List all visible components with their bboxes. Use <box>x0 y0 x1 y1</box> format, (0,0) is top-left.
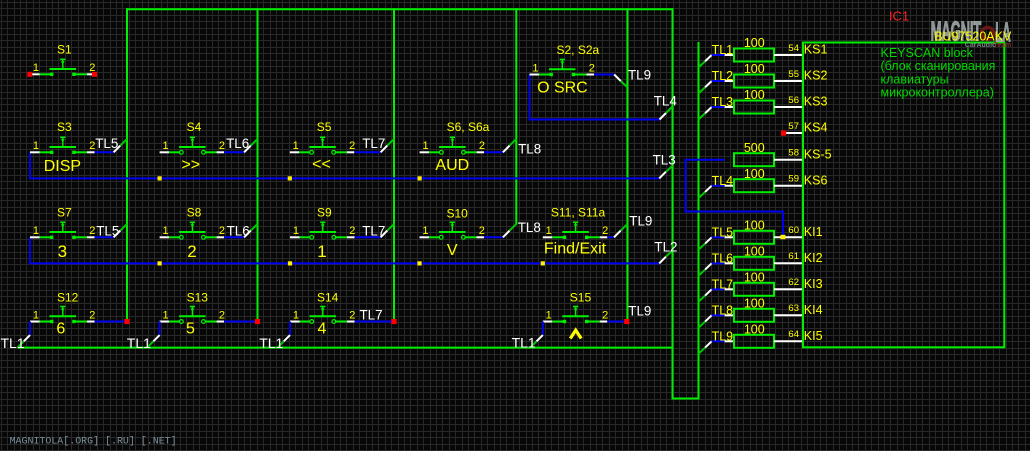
svg-text:TL5: TL5 <box>95 136 118 151</box>
svg-text:1: 1 <box>33 62 39 74</box>
wire: S9 pin2 to bus <box>355 236 381 238</box>
switch S2 <box>530 60 595 77</box>
svg-text:>>: >> <box>181 156 200 173</box>
svg-text:2: 2 <box>89 309 95 321</box>
wire: vertical bus resistor column <box>698 42 700 400</box>
svg-text:500: 500 <box>744 141 765 155</box>
svg-text:KS4: KS4 <box>804 121 828 135</box>
switch S8 <box>160 222 225 239</box>
wire: S13 pin1 to TL1 bus <box>159 322 161 336</box>
svg-text:59: 59 <box>788 174 799 185</box>
svg-text:TL2: TL2 <box>654 240 677 255</box>
svg-text:S13: S13 <box>187 290 209 304</box>
svg-text:100: 100 <box>744 219 765 233</box>
svg-text:S6, S6a: S6, S6a <box>447 120 490 134</box>
wire: KI1 resistor to IC <box>774 236 803 238</box>
svg-text:100: 100 <box>744 271 765 285</box>
wire: S15 pin2 to bus end <box>607 321 626 323</box>
end marker at S13 pin2 bus junction <box>255 319 260 324</box>
svg-text:2: 2 <box>349 225 355 237</box>
wire: S12 pin1 to TL1 bus <box>29 322 31 336</box>
svg-text:TL1: TL1 <box>1 335 25 351</box>
resistor 500 for KS-5 <box>734 153 774 166</box>
wire: bottom U link horizontal <box>672 398 699 400</box>
svg-text:60: 60 <box>788 225 799 236</box>
svg-text:TL8: TL8 <box>518 220 541 235</box>
wire: vertical bus TL5 column <box>126 8 128 321</box>
svg-text:TL8: TL8 <box>712 304 734 318</box>
label up-arrow chevron for S15 <box>570 330 581 338</box>
svg-text:100: 100 <box>744 167 765 181</box>
svg-text:2: 2 <box>349 309 355 321</box>
svg-text:2: 2 <box>219 225 225 237</box>
wire: S6 pin2 to bus <box>484 151 503 153</box>
svg-text:TL7: TL7 <box>362 136 385 151</box>
svg-text:TL9: TL9 <box>629 213 652 228</box>
resistor 100 for KI2 <box>734 257 774 270</box>
svg-text:TL5: TL5 <box>712 226 734 240</box>
svg-text:S9: S9 <box>317 206 332 220</box>
svg-text:1: 1 <box>532 62 538 74</box>
wire: KS-5 net to KI1 <box>686 160 783 238</box>
svg-text:IC1: IC1 <box>889 9 909 24</box>
svg-text:KS1: KS1 <box>804 43 828 57</box>
switch S9 <box>290 222 355 239</box>
wire: KI1 row <box>712 236 725 238</box>
wire: row1 pin1 drop S3 <box>30 152 659 178</box>
node bus entry for KI4 <box>699 322 706 328</box>
wire: KI2 row <box>712 262 725 264</box>
switch S7 <box>30 222 95 239</box>
wire: TL1 bottom row bus <box>18 347 674 349</box>
wire: top horizontal bus <box>126 8 674 10</box>
svg-text:BU97520AKV: BU97520AKV <box>934 29 1012 43</box>
svg-text:1: 1 <box>293 309 299 321</box>
svg-text:1: 1 <box>293 140 299 152</box>
resistor 100 for KI4 <box>734 309 774 322</box>
wire: KI3 resistor to IC <box>774 288 803 290</box>
wire: S12 pin2 to bus end <box>95 321 126 323</box>
svg-text:TL2: TL2 <box>712 69 734 83</box>
svg-text:TL6: TL6 <box>226 136 249 151</box>
unconnected end marker KS4 <box>781 131 786 136</box>
svg-text:57: 57 <box>788 121 799 132</box>
unconnected end marker S1 pin1 <box>27 72 32 77</box>
svg-text:TL4: TL4 <box>654 94 678 109</box>
svg-text:100: 100 <box>744 62 765 76</box>
svg-text:<<: << <box>312 156 331 173</box>
svg-text:TL3: TL3 <box>712 95 734 109</box>
end marker at S15 pin2 bus junction <box>624 319 629 324</box>
svg-text:V: V <box>447 242 458 259</box>
svg-text:S7: S7 <box>57 206 72 220</box>
svg-text:KI5: KI5 <box>804 329 823 343</box>
svg-text:56: 56 <box>788 95 799 106</box>
junction at KS-5/KI1 <box>780 235 785 239</box>
svg-text:100: 100 <box>744 36 765 50</box>
svg-text:AUD: AUD <box>435 157 469 174</box>
svg-text:TL7: TL7 <box>362 223 385 238</box>
svg-text:TL1: TL1 <box>512 334 536 350</box>
wire: vertical bus TL9 column <box>626 8 628 321</box>
svg-text:S3: S3 <box>57 120 72 134</box>
node bus entry for KS1 <box>699 61 706 67</box>
junction at S9 <box>288 261 292 265</box>
svg-text:KI3: KI3 <box>804 277 823 291</box>
resistor 100 for KS3 <box>734 101 774 114</box>
svg-text:S2, S2a: S2, S2a <box>557 43 600 57</box>
svg-text:DISP: DISP <box>44 158 81 175</box>
svg-text:TL5: TL5 <box>96 223 119 238</box>
svg-text:2: 2 <box>602 225 608 237</box>
svg-text:S15: S15 <box>570 290 592 304</box>
svg-text:TL3: TL3 <box>653 152 676 167</box>
svg-text:TL1: TL1 <box>259 335 283 351</box>
svg-text:2: 2 <box>219 140 225 152</box>
wire: KI3 row <box>712 288 725 290</box>
wire: KI4 row <box>712 314 725 316</box>
resistor 100 for KI3 <box>734 283 774 296</box>
wire: S8 pin2 to bus <box>224 236 244 238</box>
wire: vertical bus TL8 column <box>515 8 517 224</box>
svg-text:TL9: TL9 <box>628 67 651 82</box>
junction at S5 <box>288 176 292 180</box>
svg-text:1: 1 <box>162 309 168 321</box>
svg-text:3: 3 <box>58 242 67 261</box>
wire: S7 pin2 to bus <box>95 236 114 238</box>
svg-text:KS-5: KS-5 <box>804 147 832 161</box>
svg-text:100: 100 <box>744 245 765 259</box>
wire: S14 pin1 to TL1 bus <box>289 322 291 336</box>
wire: KS3 resistor to IC <box>774 106 803 108</box>
switch S11 <box>543 222 608 239</box>
svg-text:1: 1 <box>33 309 39 321</box>
svg-text:MAGNITOLA[.ORG] [.RU] [.NET]: MAGNITOLA[.ORG] [.RU] [.NET] <box>10 436 177 448</box>
op-amp/IC U1 BU97520AKV block outline <box>803 43 1004 348</box>
wire: S10 pin2 to bus <box>484 236 503 238</box>
svg-text:1: 1 <box>33 225 39 237</box>
node bus entry for KI3 <box>699 296 706 302</box>
wire: KS1 row <box>712 54 725 56</box>
junction at S10 <box>417 261 421 265</box>
svg-text:KI2: KI2 <box>804 251 823 265</box>
svg-text:KS3: KS3 <box>804 95 828 109</box>
svg-text:63: 63 <box>788 303 799 314</box>
switch S12 <box>30 307 95 324</box>
svg-text:KS2: KS2 <box>804 69 828 83</box>
watermark CarAudio Team <box>965 42 1011 49</box>
svg-text:1: 1 <box>422 140 428 152</box>
wire: KS2 resistor to IC <box>774 80 803 82</box>
svg-text:5: 5 <box>186 321 195 338</box>
wire: S3 pin2 to bus <box>95 151 114 153</box>
svg-text:клавиатуры: клавиатуры <box>881 72 949 86</box>
wire: row2 pin1 drop S7 <box>30 237 659 263</box>
svg-text:S4: S4 <box>187 120 202 134</box>
svg-text:4: 4 <box>317 321 326 338</box>
resistor 100 for KI5 <box>734 335 774 348</box>
switch S10 <box>420 222 485 239</box>
svg-text:KI4: KI4 <box>804 303 823 317</box>
svg-text:S10: S10 <box>447 207 469 221</box>
svg-text:KEYSCAN block: KEYSCAN block <box>881 46 974 60</box>
switch S13 <box>160 307 225 324</box>
wire: S5 pin2 to bus <box>354 151 380 153</box>
svg-text:S14: S14 <box>317 290 339 304</box>
resistor 100 for KS1 <box>734 49 774 62</box>
svg-text:TL7: TL7 <box>360 308 383 323</box>
wire: KI2 resistor to IC <box>774 262 803 264</box>
svg-text:S11, S11a: S11, S11a <box>551 206 606 220</box>
wire: KI4 resistor to IC <box>774 314 803 316</box>
node bus entry for KI2 <box>699 270 706 276</box>
end marker at S14 pin2 bus junction <box>391 319 396 324</box>
switch S3 <box>30 137 95 154</box>
wire: vertical bus TL6 column <box>257 8 259 321</box>
wire: KS1 resistor to IC <box>774 54 803 56</box>
svg-text:2: 2 <box>349 140 355 152</box>
end marker at S12 pin2 bus junction <box>124 319 129 324</box>
switch S6 <box>420 137 485 154</box>
switch S1 <box>30 59 95 76</box>
switch S15 <box>543 307 608 324</box>
junction at S8 <box>158 261 162 265</box>
svg-text:TL9: TL9 <box>712 330 734 344</box>
svg-text:54: 54 <box>788 43 799 54</box>
svg-text:TL1: TL1 <box>127 335 151 351</box>
node bus entry for KS6 <box>699 192 706 198</box>
wire: S2 pin1 loop <box>530 75 660 120</box>
svg-text:TL6: TL6 <box>227 223 250 238</box>
svg-text:1: 1 <box>317 242 326 261</box>
switch S14 <box>290 307 355 324</box>
switch S4 <box>160 137 225 154</box>
wire: KS2 row <box>712 80 725 82</box>
svg-text:O SRC: O SRC <box>537 79 588 96</box>
node bus entry for KS3 <box>699 113 706 119</box>
wire: KS6 resistor to IC <box>774 185 803 187</box>
wire: S11 pin2 to bus <box>607 236 614 238</box>
svg-text:6: 6 <box>56 321 65 338</box>
wire: KS-5 resistor to IC <box>774 159 803 161</box>
svg-text:TL7: TL7 <box>712 278 734 292</box>
svg-text:1: 1 <box>33 140 39 152</box>
wire: S13 pin2 to bus end <box>224 321 256 323</box>
svg-text:S1: S1 <box>57 43 72 57</box>
svg-text:(блок сканирования: (блок сканирования <box>881 59 996 73</box>
svg-text:55: 55 <box>788 69 799 80</box>
svg-text:58: 58 <box>788 148 799 159</box>
resistor 100 for KI1 <box>734 231 774 244</box>
svg-text:TL9: TL9 <box>628 304 651 319</box>
watermark MAGNITOLA <box>931 15 1011 48</box>
wire: S4 pin2 to bus <box>224 151 244 153</box>
node bus entry for KI5 <box>699 348 706 354</box>
wire: vertical bus TL7 column <box>393 8 395 321</box>
svg-text:100: 100 <box>744 297 765 311</box>
svg-text:S8: S8 <box>187 206 202 220</box>
svg-text:1: 1 <box>422 225 428 237</box>
wire: S2 pin2 to TL9 bus <box>594 74 614 76</box>
svg-text:TL4: TL4 <box>712 174 734 188</box>
svg-text:1: 1 <box>546 225 552 237</box>
wire: S14 pin2 to bus end <box>355 321 393 323</box>
svg-text:100: 100 <box>744 323 765 337</box>
svg-text:2: 2 <box>589 62 595 74</box>
node bus entry for KI1 <box>699 244 706 250</box>
svg-text:S5: S5 <box>317 120 332 134</box>
svg-text:1: 1 <box>162 225 168 237</box>
svg-text:2: 2 <box>89 225 95 237</box>
svg-text:TL8: TL8 <box>518 141 541 156</box>
svg-text:1: 1 <box>546 309 552 321</box>
node TL4 bus entry <box>660 113 667 120</box>
svg-text:2: 2 <box>602 309 608 321</box>
svg-text:S12: S12 <box>57 290 79 304</box>
svg-text:2: 2 <box>187 242 196 261</box>
junction at S6 <box>418 176 422 180</box>
wire: KS4 stub <box>786 132 803 134</box>
switch S5 <box>290 137 355 154</box>
svg-text:TL1: TL1 <box>712 43 734 57</box>
unconnected end marker S1 pin2 <box>92 72 97 77</box>
svg-text:64: 64 <box>788 329 799 340</box>
svg-text:1: 1 <box>162 140 168 152</box>
svg-text:TL6: TL6 <box>712 252 734 266</box>
node bus entry for KS2 <box>699 87 706 93</box>
wire: vertical bus right collector <box>672 8 674 398</box>
junction at S4 <box>158 176 162 180</box>
junction at S11 <box>541 261 545 265</box>
node TL2 bus entry <box>659 257 666 264</box>
wire: S15 pin1 to TL1 bus <box>542 322 544 336</box>
resistor 100 for KS6 <box>734 179 774 192</box>
svg-text:2: 2 <box>479 140 485 152</box>
resistor 100 for KS2 <box>734 75 774 88</box>
svg-text:Find/Exit: Find/Exit <box>544 241 607 258</box>
svg-text:61: 61 <box>788 251 799 262</box>
node TL3 bus entry <box>659 172 666 179</box>
svg-text:2: 2 <box>479 225 485 237</box>
svg-text:микроконтроллера): микроконтроллера) <box>881 86 994 100</box>
wire: KI5 row <box>712 340 725 342</box>
svg-text:KS6: KS6 <box>804 173 828 187</box>
svg-text:2: 2 <box>219 309 225 321</box>
wire: KI5 resistor to IC <box>774 340 803 342</box>
wire: KS6 row <box>712 185 725 187</box>
svg-text:1: 1 <box>293 225 299 237</box>
wire: KS3 row <box>712 106 725 108</box>
svg-text:62: 62 <box>788 277 799 288</box>
svg-text:100: 100 <box>744 88 765 102</box>
svg-text:KI1: KI1 <box>804 225 823 239</box>
